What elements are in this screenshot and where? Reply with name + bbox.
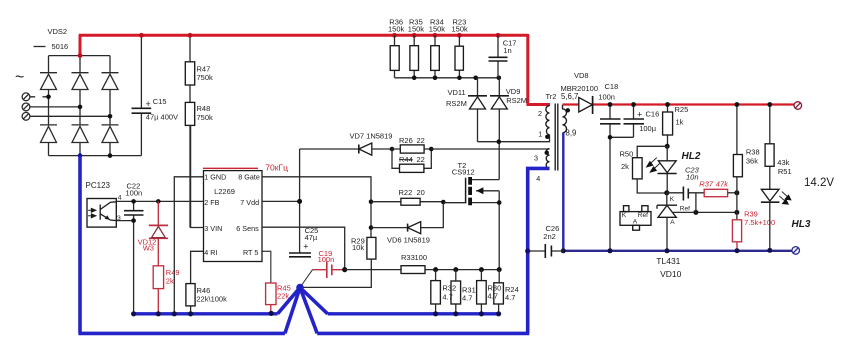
- resistor R32: [435, 270, 437, 314]
- node C22 top: [131, 199, 136, 204]
- svg-text:4: 4: [118, 195, 122, 202]
- svg-text:8 Gate: 8 Gate: [238, 172, 260, 181]
- node sec-gnd R39: [735, 248, 740, 253]
- node gnd R45: [269, 311, 274, 316]
- svg-text:+: +: [637, 109, 642, 119]
- svg-text:VD11: VD11: [448, 88, 466, 97]
- diode D-top-1: [40, 73, 57, 90]
- resistor R31: [455, 270, 457, 314]
- svg-text:RT 5: RT 5: [243, 248, 258, 257]
- svg-text:CS912: CS912: [452, 167, 475, 176]
- svg-text:2k: 2k: [621, 162, 629, 171]
- node R51 top: [767, 102, 772, 107]
- optocoupler PC123: [87, 199, 116, 228]
- node R24 top: [497, 267, 502, 272]
- node sec-gnd TL431: [665, 248, 670, 253]
- TL431 package diagram: [620, 212, 651, 226]
- node gnd R49: [156, 311, 161, 316]
- wire cap ground branch: [610, 137, 634, 251]
- node C15 top: [139, 33, 144, 38]
- wire secondary return blue: [562, 133, 564, 251]
- resistor R34: [434, 35, 436, 78]
- svg-text:RS2M: RS2M: [446, 99, 467, 108]
- AC input terminal 2: [22, 103, 30, 111]
- svg-text:C18: C18: [605, 82, 619, 91]
- svg-text:Ref: Ref: [638, 212, 648, 219]
- wire GND pin1: [174, 177, 203, 314]
- node phase1-leg1: [46, 95, 51, 100]
- svg-text:100n: 100n: [598, 93, 615, 102]
- node R23 top: [457, 33, 462, 38]
- svg-text:100µ: 100µ: [639, 124, 657, 133]
- wire pin4 blue: [528, 168, 550, 333]
- op-amp U1 L2269 controller: [204, 171, 263, 262]
- node R25 top: [665, 102, 670, 107]
- svg-text:K: K: [670, 196, 675, 203]
- svg-text:4.7: 4.7: [462, 294, 472, 303]
- resistor R49: [153, 266, 163, 289]
- LED HL3: [761, 189, 779, 201]
- wire Sens net: [262, 227, 345, 269]
- resistor R35: [413, 35, 415, 78]
- resistor R37: [704, 189, 727, 196]
- wire clamp node: [395, 77, 499, 79]
- svg-text:K: K: [622, 212, 627, 219]
- node R35 top: [412, 33, 417, 38]
- AC input terminal 3: [22, 112, 30, 120]
- resistor R25: [667, 105, 669, 147]
- svg-text:10k: 10k: [352, 243, 364, 252]
- svg-text:8,9: 8,9: [566, 129, 577, 138]
- wire phase 1: [30, 96, 49, 98]
- svg-text:R26: R26: [399, 136, 413, 145]
- node VD7-R26: [390, 147, 395, 152]
- node gnd R30: [479, 311, 484, 316]
- svg-text:43k: 43k: [777, 158, 789, 167]
- resistor R23: [458, 35, 460, 78]
- wire VIN pin3: [191, 125, 204, 227]
- svg-text:1: 1: [538, 130, 542, 139]
- svg-text:R25: R25: [675, 105, 689, 114]
- node C26 left: [525, 248, 530, 253]
- wire HV+ red rail: [79, 34, 550, 105]
- node sec-gnd C26: [561, 248, 566, 253]
- resistor R38: [736, 105, 738, 220]
- svg-text:4 RI: 4 RI: [204, 248, 217, 257]
- svg-text:A: A: [670, 219, 675, 226]
- wire inner ground rail left: [134, 312, 278, 315]
- transformer Tr2 secondary winding: [563, 105, 567, 133]
- node R31 top: [453, 267, 458, 272]
- output terminal -: [792, 247, 800, 255]
- node gnd IC: [172, 311, 177, 316]
- node R47 top: [188, 33, 193, 38]
- capacitor C17: [497, 35, 499, 78]
- node gate-T2: [441, 200, 446, 205]
- svg-text:14.2V: 14.2V: [804, 177, 834, 189]
- wire Vdd net: [262, 149, 359, 253]
- svg-text:22k\100k: 22k\100k: [196, 295, 227, 304]
- node sense: [342, 267, 347, 272]
- node gnd R24: [496, 311, 501, 316]
- svg-text:3: 3: [534, 154, 538, 163]
- node VD11 top: [473, 76, 478, 81]
- node TL431 cathode: [664, 190, 669, 195]
- node C16 top: [631, 102, 636, 107]
- resistor R33: [345, 269, 436, 271]
- svg-text:20: 20: [417, 188, 425, 197]
- svg-text:7.5k+100: 7.5k+100: [744, 218, 775, 227]
- svg-text:4: 4: [536, 174, 540, 183]
- transformer Tr2 primary winding 3-4: [546, 149, 549, 169]
- resistor R30: [480, 270, 482, 314]
- diode VD9 RS2M: [498, 78, 500, 142]
- node R39 top: [734, 210, 739, 215]
- svg-text:R46: R46: [197, 286, 211, 295]
- svg-text:+: +: [303, 241, 308, 251]
- svg-text:47k: 47k: [716, 179, 729, 188]
- capacitor C25: [289, 253, 311, 257]
- capacitor C22: [133, 201, 135, 313]
- phase dot pin1: [545, 135, 549, 139]
- svg-text:L2269: L2269: [214, 187, 235, 196]
- diode D-top-3: [102, 73, 119, 90]
- resistor R39: [732, 220, 741, 242]
- svg-text:4.7: 4.7: [505, 293, 515, 302]
- svg-text:R38: R38: [746, 148, 760, 157]
- node gate-VD6: [369, 225, 374, 230]
- wire shunt top: [436, 269, 500, 271]
- svg-text:150k: 150k: [429, 24, 446, 33]
- svg-text:150k: 150k: [408, 24, 425, 33]
- svg-text:1 GND: 1 GND: [204, 172, 226, 181]
- phase dot pin3: [545, 151, 549, 155]
- svg-text:47µ 400V: 47µ 400V: [146, 113, 178, 122]
- resistor R47: [189, 35, 191, 102]
- node sec-gnd HL3: [767, 248, 772, 253]
- svg-text:1k: 1k: [676, 118, 684, 127]
- LED HL2: [666, 146, 668, 192]
- svg-text:W3: W3: [143, 244, 154, 253]
- node bridge-minus: [78, 153, 83, 158]
- svg-text:Ref: Ref: [680, 206, 690, 213]
- resistor R36: [394, 35, 396, 78]
- svg-text:R44: R44: [399, 155, 413, 164]
- resistor R51: [769, 105, 771, 190]
- svg-text:C15: C15: [153, 97, 167, 106]
- wire output red rail: [563, 103, 798, 105]
- capacitor C23: [667, 193, 704, 213]
- resistor R24: [498, 270, 501, 314]
- diode D-bot-3: [102, 125, 119, 143]
- node C18 top: [608, 102, 613, 107]
- svg-text:5016: 5016: [52, 42, 69, 51]
- resistor R50: [637, 146, 667, 193]
- svg-text:PC123: PC123: [86, 181, 111, 190]
- red marker line: [203, 167, 258, 169]
- diode D-bot-2: [72, 125, 89, 143]
- svg-text:150k: 150k: [452, 24, 469, 33]
- AC input terminal 1: [22, 93, 30, 101]
- wire RI pin4 + resistor R46: [191, 251, 204, 313]
- node R34 bottom: [433, 76, 438, 81]
- capacitor C19: [300, 270, 313, 288]
- svg-text:VD10: VD10: [660, 269, 682, 279]
- svg-text:R51: R51: [778, 167, 792, 176]
- node gnd R31: [453, 311, 458, 316]
- svg-text:2 FB: 2 FB: [204, 198, 219, 207]
- diode VD8 MBR20100: [579, 98, 593, 113]
- svg-text:100n: 100n: [318, 255, 335, 264]
- node R32 top: [433, 267, 438, 272]
- resistor R29: [367, 237, 376, 259]
- node Ref: [693, 210, 698, 215]
- svg-text:750k: 750k: [197, 113, 214, 122]
- node R25 bottom: [665, 144, 670, 149]
- capacitor C15: [140, 35, 142, 155]
- node drain: [497, 139, 502, 144]
- wire gate net: [262, 177, 371, 238]
- wire star diagonals: [278, 288, 328, 334]
- svg-text:22k: 22k: [277, 291, 289, 300]
- svg-text:R22: R22: [399, 188, 413, 197]
- resistor R44: [392, 149, 431, 168]
- svg-text:+: +: [146, 99, 151, 109]
- node R34 top: [433, 33, 438, 38]
- svg-text:5,6,7: 5,6,7: [561, 92, 578, 101]
- svg-text:TL431: TL431: [656, 256, 680, 266]
- capacitor C26: [528, 250, 564, 252]
- svg-text:22: 22: [417, 136, 425, 145]
- node R35 bottom: [412, 76, 417, 81]
- node C22 pin3: [131, 218, 136, 223]
- node Vdd pin7: [297, 199, 302, 204]
- wire phase 2: [30, 106, 80, 108]
- node gate-R22: [369, 199, 374, 204]
- bridge rectifier VDS2 frame: [49, 56, 142, 156]
- diode VD7 1N5819: [358, 145, 360, 154]
- svg-text:VD9: VD9: [506, 87, 521, 96]
- transformer core: [555, 104, 558, 171]
- capacitor C16: [633, 105, 635, 138]
- opto emission arrows: [647, 158, 661, 173]
- svg-text:100n: 100n: [126, 189, 143, 198]
- svg-text:R33: R33: [401, 253, 415, 262]
- wire secondary ground rail: [563, 250, 792, 252]
- node R30 top: [479, 267, 484, 272]
- svg-text:C16: C16: [646, 109, 660, 118]
- node C17 top: [496, 33, 501, 38]
- node gnd R32: [433, 311, 438, 316]
- resistor R22: [371, 201, 443, 203]
- node VD12 top: [156, 199, 161, 204]
- wire phase 3: [30, 115, 110, 117]
- diode VD11 RS2M: [477, 78, 479, 142]
- svg-text:HL2: HL2: [682, 151, 701, 162]
- node R23 bottom: [457, 76, 462, 81]
- svg-text:VDS2: VDS2: [48, 27, 68, 36]
- node bridge-plus: [78, 53, 83, 58]
- svg-text:MBR20100: MBR20100: [561, 84, 599, 93]
- capacitor C18: [609, 105, 611, 138]
- svg-text:100: 100: [415, 253, 428, 262]
- wire FB net: [116, 200, 203, 202]
- svg-text:2k: 2k: [166, 276, 174, 285]
- svg-text:R48: R48: [197, 104, 211, 113]
- svg-text:VD6 1N5819: VD6 1N5819: [387, 236, 430, 245]
- transformer Tr2 primary winding 2-1: [546, 106, 550, 135]
- transistor Q T2 CS912: [443, 202, 466, 204]
- output terminal +: [794, 102, 802, 110]
- svg-text:VD8: VD8: [574, 71, 589, 80]
- wire inner ground rail right: [328, 312, 500, 315]
- label 5016: [34, 46, 46, 48]
- svg-text:70кГц: 70кГц: [265, 162, 288, 172]
- svg-text:10n: 10n: [686, 172, 699, 181]
- svg-text:22: 22: [417, 155, 425, 164]
- svg-text:3 VIN: 3 VIN: [204, 224, 222, 233]
- node leg3-minus: [108, 153, 113, 158]
- wire primary ground left: [78, 156, 285, 334]
- node gnd C22: [131, 311, 136, 316]
- svg-text:~: ~: [15, 69, 24, 86]
- node C17 bottom: [497, 76, 502, 81]
- node star ground point: [296, 284, 304, 292]
- svg-text:R50: R50: [620, 149, 634, 158]
- svg-text:1n: 1n: [503, 46, 511, 55]
- node R37 right: [734, 190, 739, 195]
- node sec-gnd caps: [608, 248, 613, 253]
- wire Ref: [672, 211, 737, 213]
- node R38 top: [735, 102, 740, 107]
- svg-text:4.7: 4.7: [442, 293, 452, 302]
- svg-text:36k: 36k: [746, 157, 758, 166]
- TL431 VD10: [657, 205, 677, 209]
- node R26-right: [429, 147, 434, 152]
- svg-text:2n2: 2n2: [543, 232, 556, 241]
- svg-text:4.7: 4.7: [488, 291, 498, 300]
- wire aux to pin3: [431, 148, 549, 150]
- diode D-bot-1: [40, 125, 57, 143]
- svg-text:2: 2: [538, 109, 542, 118]
- svg-text:R37: R37: [699, 179, 714, 188]
- svg-text:6 Sens: 6 Sens: [236, 224, 259, 233]
- wire primary ground right bottom: [317, 332, 529, 336]
- svg-text:R32: R32: [442, 283, 456, 292]
- wire drain node: [478, 135, 550, 142]
- node C18 bottom: [608, 135, 613, 140]
- svg-text:150k: 150k: [388, 24, 405, 33]
- phase dot secondary: [566, 108, 570, 112]
- resistor R48: [189, 125, 191, 227]
- node R36 top: [392, 33, 397, 38]
- svg-text:Tr2: Tr2: [546, 92, 557, 101]
- svg-text:750k: 750k: [197, 73, 214, 82]
- zener VD12: [157, 201, 159, 265]
- node phase2-leg2: [78, 105, 83, 110]
- svg-text:RS2M: RS2M: [506, 96, 527, 105]
- svg-text:VD7 1N5819: VD7 1N5819: [350, 131, 393, 140]
- svg-text:7 Vdd: 7 Vdd: [240, 198, 259, 207]
- diode VD6 1N5819: [371, 202, 443, 228]
- wire RT pin5 + resistor R45: [262, 251, 271, 283]
- node gnd R46: [188, 311, 193, 316]
- diode D-top-2: [72, 73, 89, 90]
- svg-text:A: A: [633, 218, 638, 225]
- resistor R26: [392, 148, 431, 150]
- node phase3-leg3: [108, 114, 113, 119]
- wire PC123 pin3: [116, 220, 133, 222]
- svg-text:HL3: HL3: [792, 219, 811, 230]
